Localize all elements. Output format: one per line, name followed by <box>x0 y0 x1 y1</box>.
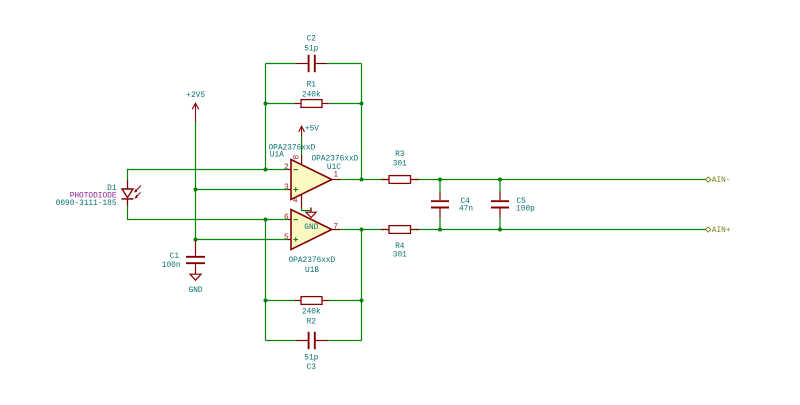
svg-text:U1C: U1C <box>327 164 341 172</box>
svg-text:GND: GND <box>304 224 318 232</box>
hierarchical label AIN- <box>706 177 731 185</box>
junction (265.5,219.5) <box>264 218 268 222</box>
svg-text:2: 2 <box>284 164 289 172</box>
wire output7 to AIN+ <box>340 229 707 231</box>
pin number 4 <box>293 198 298 206</box>
label 240k (R2) <box>302 308 321 316</box>
wire C2 row right <box>327 63 362 65</box>
label C4 <box>461 198 471 206</box>
svg-text:C5: C5 <box>517 198 527 206</box>
wire feedback bottom left vertical <box>265 220 267 341</box>
wire +2V5 vertical <box>195 122 197 241</box>
ground below C1 <box>190 274 201 280</box>
op-amp U1B <box>288 210 340 250</box>
svg-text:C1: C1 <box>170 253 180 261</box>
svg-text:R1: R1 <box>307 82 317 90</box>
junction (265.5,169.5) <box>264 168 268 172</box>
capacitor C2 <box>296 55 327 72</box>
resistor R2 <box>295 297 329 305</box>
junction (265.5,103.5) <box>264 102 268 106</box>
svg-text:+2V5: +2V5 <box>186 92 205 100</box>
svg-text:AIN-: AIN- <box>712 177 731 185</box>
label R1 <box>307 82 317 90</box>
pin number 2 <box>284 164 289 172</box>
photodiode D1 <box>122 180 142 206</box>
label D1 <box>107 185 117 193</box>
label 301 (R3) <box>393 160 407 168</box>
label R2 <box>307 319 317 327</box>
label 47n <box>459 206 473 214</box>
pin number 8 (rotated) <box>294 155 302 160</box>
resistor R3 <box>382 176 419 184</box>
label OPA2376xxD (U1C) <box>312 155 359 163</box>
wire pin3 <box>196 189 289 191</box>
wire C4 top stub <box>439 180 441 193</box>
label U1C <box>327 164 341 172</box>
label GND (below C1) <box>189 287 203 295</box>
wire R2 row left <box>266 300 296 302</box>
svg-text:240k: 240k <box>302 92 321 100</box>
wire C3 row right <box>327 340 362 342</box>
wire C3 row left <box>266 340 297 342</box>
label C3 <box>307 364 317 372</box>
svg-text:0090-3111-185: 0090-3111-185 <box>56 200 117 208</box>
svg-text:R4: R4 <box>395 243 405 251</box>
svg-text:8: 8 <box>294 155 302 160</box>
label C5 <box>517 198 527 206</box>
svg-text:240k: 240k <box>302 308 321 316</box>
pin number 1 <box>333 172 338 180</box>
svg-text:47n: 47n <box>459 206 473 214</box>
svg-text:301: 301 <box>393 160 407 168</box>
svg-text:U1A: U1A <box>270 152 284 160</box>
capacitor C3 <box>296 332 327 349</box>
label U1A <box>270 152 284 160</box>
svg-text:1: 1 <box>333 172 338 180</box>
label R3 <box>395 151 405 159</box>
capacitor C1 <box>186 241 205 274</box>
junction (440,179.5) <box>438 178 442 182</box>
svg-text:GND: GND <box>189 287 203 295</box>
label R4 <box>395 243 405 251</box>
svg-text:100n: 100n <box>162 262 181 270</box>
hierarchical label AIN+ <box>706 227 731 235</box>
wire pin5 <box>196 239 289 241</box>
wire R1 row left <box>266 103 296 105</box>
wire photodiode vertical top <box>127 169 129 181</box>
junction (440,229.5) <box>438 228 442 232</box>
svg-text:5: 5 <box>284 234 289 242</box>
svg-text:51p: 51p <box>304 355 318 363</box>
pin number 3 <box>284 184 289 192</box>
svg-text:51p: 51p <box>304 45 318 53</box>
wire photodiode vertical bottom <box>127 205 129 221</box>
label 301 (R4) <box>393 252 407 260</box>
wire pin4 to GND jog <box>302 208 312 211</box>
svg-text:U1B: U1B <box>305 267 319 275</box>
svg-text:C4: C4 <box>461 198 471 206</box>
label +2V5 <box>186 92 205 100</box>
pin number 7 <box>333 223 338 231</box>
wire C5 top stub <box>499 180 501 193</box>
wire R2 row right <box>328 300 362 302</box>
pin number 5 <box>284 234 289 242</box>
svg-text:OPA2376xxD: OPA2376xxD <box>312 155 359 163</box>
wire top photodiode to pin2 <box>128 169 289 171</box>
label 51p (C3) <box>304 355 318 363</box>
svg-text:301: 301 <box>393 252 407 260</box>
label 0090-3111-185 <box>56 200 117 208</box>
label C2 <box>307 36 317 44</box>
ground near pin4 <box>306 208 316 218</box>
op-amp U1A <box>288 155 340 208</box>
wire feedback bottom right vertical <box>361 230 363 341</box>
svg-text:4: 4 <box>293 198 298 206</box>
wire C4 bottom stub <box>439 218 441 230</box>
wire C2 row left <box>266 63 297 65</box>
svg-text:AIN+: AIN+ <box>712 227 731 235</box>
junction (361.5,179.5) <box>360 178 364 182</box>
label OPA2376xxD (U1B) <box>289 257 336 265</box>
power +5V <box>299 126 305 136</box>
svg-text:R2: R2 <box>307 319 317 327</box>
label +5V <box>305 125 319 133</box>
svg-text:3: 3 <box>284 184 289 192</box>
resistor R4 <box>382 226 419 234</box>
label 100p <box>516 206 535 214</box>
svg-text:C3: C3 <box>307 364 317 372</box>
capacitor C5 <box>491 192 509 218</box>
wire feedback top left vertical <box>265 64 267 170</box>
wire R1 row right <box>328 103 362 105</box>
svg-text:+5V: +5V <box>305 125 319 133</box>
svg-text:6: 6 <box>284 214 289 222</box>
junction (195.5,189.5) <box>194 188 198 192</box>
svg-text:100p: 100p <box>516 206 535 214</box>
svg-text:OPA2376xxD: OPA2376xxD <box>289 257 336 265</box>
pin number 6 <box>284 214 289 222</box>
wire feedback top right vertical <box>361 64 363 180</box>
svg-text:7: 7 <box>333 223 338 231</box>
label U1B <box>305 267 319 275</box>
wire bottom photodiode to pin6 <box>128 219 289 221</box>
label PHOTODIODE <box>70 193 117 201</box>
junction (500,179.5) <box>498 178 502 182</box>
junction (195.5,239.5) <box>194 238 198 242</box>
label 100n <box>162 262 181 270</box>
junction (500,229.5) <box>498 228 502 232</box>
label 240k (R1) <box>302 92 321 100</box>
junction (265.5,300.5) <box>264 299 268 303</box>
label 51p (C2) <box>304 45 318 53</box>
power +2V5 <box>192 103 199 122</box>
wire C5 bottom stub <box>499 218 501 230</box>
capacitor C4 <box>431 192 449 218</box>
label C1 <box>170 253 180 261</box>
resistor R1 <box>295 100 329 108</box>
svg-text:R3: R3 <box>395 151 405 159</box>
junction (361.5,103.5) <box>360 102 364 106</box>
svg-text:C2: C2 <box>307 36 317 44</box>
wire +5V vertical <box>301 136 303 156</box>
junction (361.5,229.5) <box>360 228 364 232</box>
label OPA2376xxD (U1A) <box>269 144 316 152</box>
label GND (U1 power) <box>304 224 318 232</box>
wire output1 to AIN- <box>340 179 707 181</box>
junction (361.5,300.5) <box>360 299 364 303</box>
